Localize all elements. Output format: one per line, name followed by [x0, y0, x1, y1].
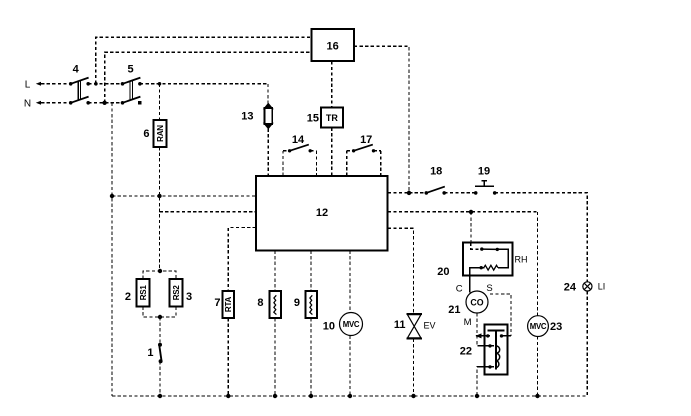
- svg-text:10: 10: [323, 320, 335, 332]
- svg-text:4: 4: [73, 63, 80, 75]
- svg-text:CO: CO: [470, 297, 483, 307]
- svg-text:22: 22: [460, 346, 472, 358]
- svg-text:TR: TR: [326, 113, 338, 123]
- wire column sensor 9: [310, 251, 312, 397]
- node junction RS pair bottom: [158, 315, 162, 319]
- svg-text:MVC: MVC: [343, 320, 360, 329]
- node junction right: [407, 191, 411, 195]
- thermistor 7 RTA: [223, 291, 235, 318]
- svg-text:N: N: [24, 98, 31, 109]
- wire RS parallel branches: [143, 271, 176, 317]
- svg-text:15: 15: [307, 112, 319, 124]
- wire switch 1 to bottom bus: [159, 361, 161, 396]
- box 16 (thermostat/control unit): [311, 29, 354, 61]
- node junction RAN column top: [158, 82, 162, 86]
- svg-text:18: 18: [430, 166, 442, 178]
- wire RH to compressor: [469, 276, 471, 293]
- svg-text:7: 7: [214, 297, 220, 309]
- resistor 6 RAN (anti-condensation heater): [154, 120, 167, 147]
- svg-text:11: 11: [394, 319, 406, 331]
- wire top bus 2 (N side to box 16 lower input): [105, 52, 312, 103]
- svg-text:12: 12: [316, 207, 328, 219]
- svg-text:2: 2: [125, 291, 131, 303]
- switch 14: [283, 145, 317, 176]
- svg-text:C: C: [456, 284, 463, 295]
- svg-text:S: S: [486, 283, 492, 294]
- svg-text:RS1: RS1: [139, 285, 148, 301]
- svg-text:13: 13: [241, 111, 253, 123]
- svg-text:16: 16: [326, 40, 338, 52]
- wire column sensor 8: [274, 251, 276, 397]
- svg-text:20: 20: [437, 266, 449, 278]
- node junction RAN column / left bus: [157, 194, 161, 198]
- heater box 20 RH: [463, 243, 513, 276]
- wire box12 right line 212: [388, 211, 538, 213]
- wire bottom bus: [112, 395, 587, 397]
- wire S to relay 22: [490, 294, 511, 336]
- svg-text:MVC: MVC: [530, 322, 547, 331]
- wire RS bottom to switch 1: [159, 317, 161, 345]
- node junction RH column: [469, 210, 473, 214]
- fuse 13: [263, 103, 274, 130]
- svg-text:24: 24: [564, 281, 577, 293]
- svg-text:19: 19: [478, 166, 490, 178]
- svg-text:14: 14: [292, 134, 305, 146]
- valve 11 EV: [406, 314, 422, 338]
- wire N row: [41, 102, 123, 104]
- wire RAN column: [159, 84, 161, 271]
- pushbutton 19: [474, 181, 497, 195]
- svg-text:RS2: RS2: [172, 285, 181, 301]
- transformer 15 TR: [321, 107, 343, 127]
- switch 18: [409, 187, 446, 195]
- wire top bus 1 (L side to box 16 upper input): [96, 37, 312, 84]
- wire down to MVC 23: [537, 212, 539, 396]
- switch 4 (double pole mains switch): [69, 78, 90, 105]
- wire fuse column: [267, 84, 269, 176]
- svg-text:M: M: [464, 317, 472, 328]
- box 12 (main electronic control board): [256, 176, 388, 251]
- wire 19 to right edge, down to lamp: [495, 193, 588, 396]
- node junction L/top-bus: [94, 82, 98, 86]
- node bus junctions: [158, 394, 540, 398]
- svg-text:6: 6: [143, 128, 149, 140]
- wire left bus to box 12: [112, 195, 256, 197]
- svg-text:RAN: RAN: [156, 125, 165, 142]
- wire RTA to bus: [227, 318, 229, 396]
- node L arrow: [36, 82, 41, 86]
- wire second line to box 12 left: [160, 211, 257, 213]
- wire box12 right to junction 18: [388, 192, 409, 194]
- svg-text:9: 9: [294, 297, 300, 309]
- svg-text:1: 1: [147, 347, 153, 359]
- svg-text:EV: EV: [424, 321, 436, 331]
- node junction left bus: [110, 194, 114, 198]
- wire between 18 and 19: [444, 192, 476, 194]
- svg-text:L: L: [25, 79, 31, 90]
- svg-text:17: 17: [360, 134, 372, 146]
- switch 5 (double pole switch): [121, 78, 142, 105]
- wire box12 right line 228 to EV: [388, 228, 414, 396]
- svg-text:LI: LI: [598, 282, 606, 292]
- switch 17: [347, 145, 381, 176]
- motor 23 MVC: [528, 316, 549, 337]
- wire TR column: [331, 61, 333, 176]
- node junction N/top-bus-2: [102, 101, 106, 105]
- lamp 24 LI: [583, 282, 592, 291]
- svg-text:8: 8: [257, 297, 263, 309]
- svg-text:RTA: RTA: [224, 296, 233, 312]
- wire column motor 10: [349, 251, 351, 397]
- start relay 22: [475, 325, 511, 375]
- resistor 3 RS2: [170, 279, 183, 307]
- node N arrow: [36, 101, 41, 105]
- svg-text:3: 3: [186, 291, 192, 303]
- svg-text:21: 21: [448, 304, 460, 316]
- switch 1 (thermostat contact): [158, 343, 163, 363]
- svg-text:5: 5: [128, 63, 134, 75]
- wire box16 right to junction: [354, 46, 409, 193]
- sensor 8: [270, 291, 282, 318]
- node junction RS pair top: [158, 269, 162, 273]
- wire L row: [41, 83, 268, 85]
- compressor 21 CO: [466, 291, 488, 313]
- svg-text:RH: RH: [515, 255, 528, 265]
- resistor 2 RS1: [137, 279, 150, 307]
- motor 10 MVC: [340, 313, 363, 336]
- wire RH column: [470, 212, 472, 243]
- wire left down branch (N row to bottom bus): [111, 103, 113, 396]
- wire relay 22 to bottom bus: [477, 367, 480, 396]
- wire M to relay 22: [476, 313, 478, 346]
- wire RTA feed from box12 left: [228, 228, 256, 292]
- svg-text:23: 23: [550, 321, 562, 333]
- sensor 9: [306, 291, 318, 318]
